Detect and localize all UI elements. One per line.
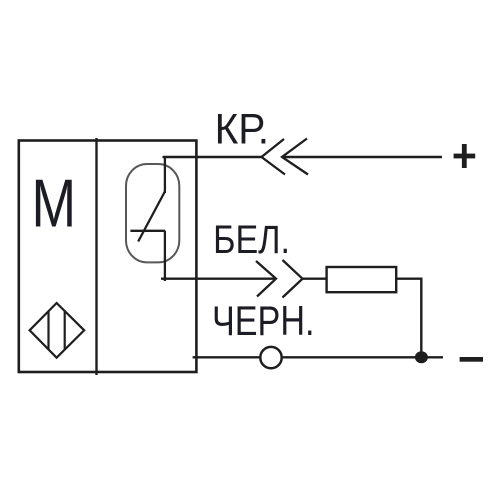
inductive sensor symbol (diamond)	[30, 303, 85, 358]
wire CHERN left segment	[193, 356, 260, 358]
wire BEL left segment	[161, 278, 276, 280]
junction node	[415, 351, 428, 363]
svg-text:ЧЕРН.: ЧЕРН.	[212, 297, 315, 344]
svg-text:M: M	[32, 167, 77, 242]
connector chevron on KR wire (outer)	[282, 139, 308, 175]
svg-text:БЕЛ.: БЕЛ.	[213, 218, 290, 262]
connector chevron on BEL wire (outer)	[283, 260, 303, 298]
switching element outline (capsule)	[126, 164, 179, 262]
wire KR right segment	[282, 156, 442, 158]
minus terminal	[460, 357, 483, 362]
switch contact	[130, 156, 165, 281]
svg-text:КР.: КР.	[215, 106, 269, 153]
wire CHERN right segment	[283, 356, 443, 358]
indicator circle	[260, 347, 281, 368]
connector chevron on BEL wire (inner)	[256, 261, 276, 297]
connector chevron on KR wire (inner)	[262, 139, 286, 175]
wire KR left segment	[163, 156, 262, 158]
wire BEL middle segment	[303, 278, 327, 280]
plus terminal	[454, 144, 476, 168]
resistor R	[327, 267, 397, 292]
wire from resistor to junction	[396, 279, 421, 357]
sensor body divider	[95, 138, 97, 375]
sensor body outline	[19, 141, 197, 373]
